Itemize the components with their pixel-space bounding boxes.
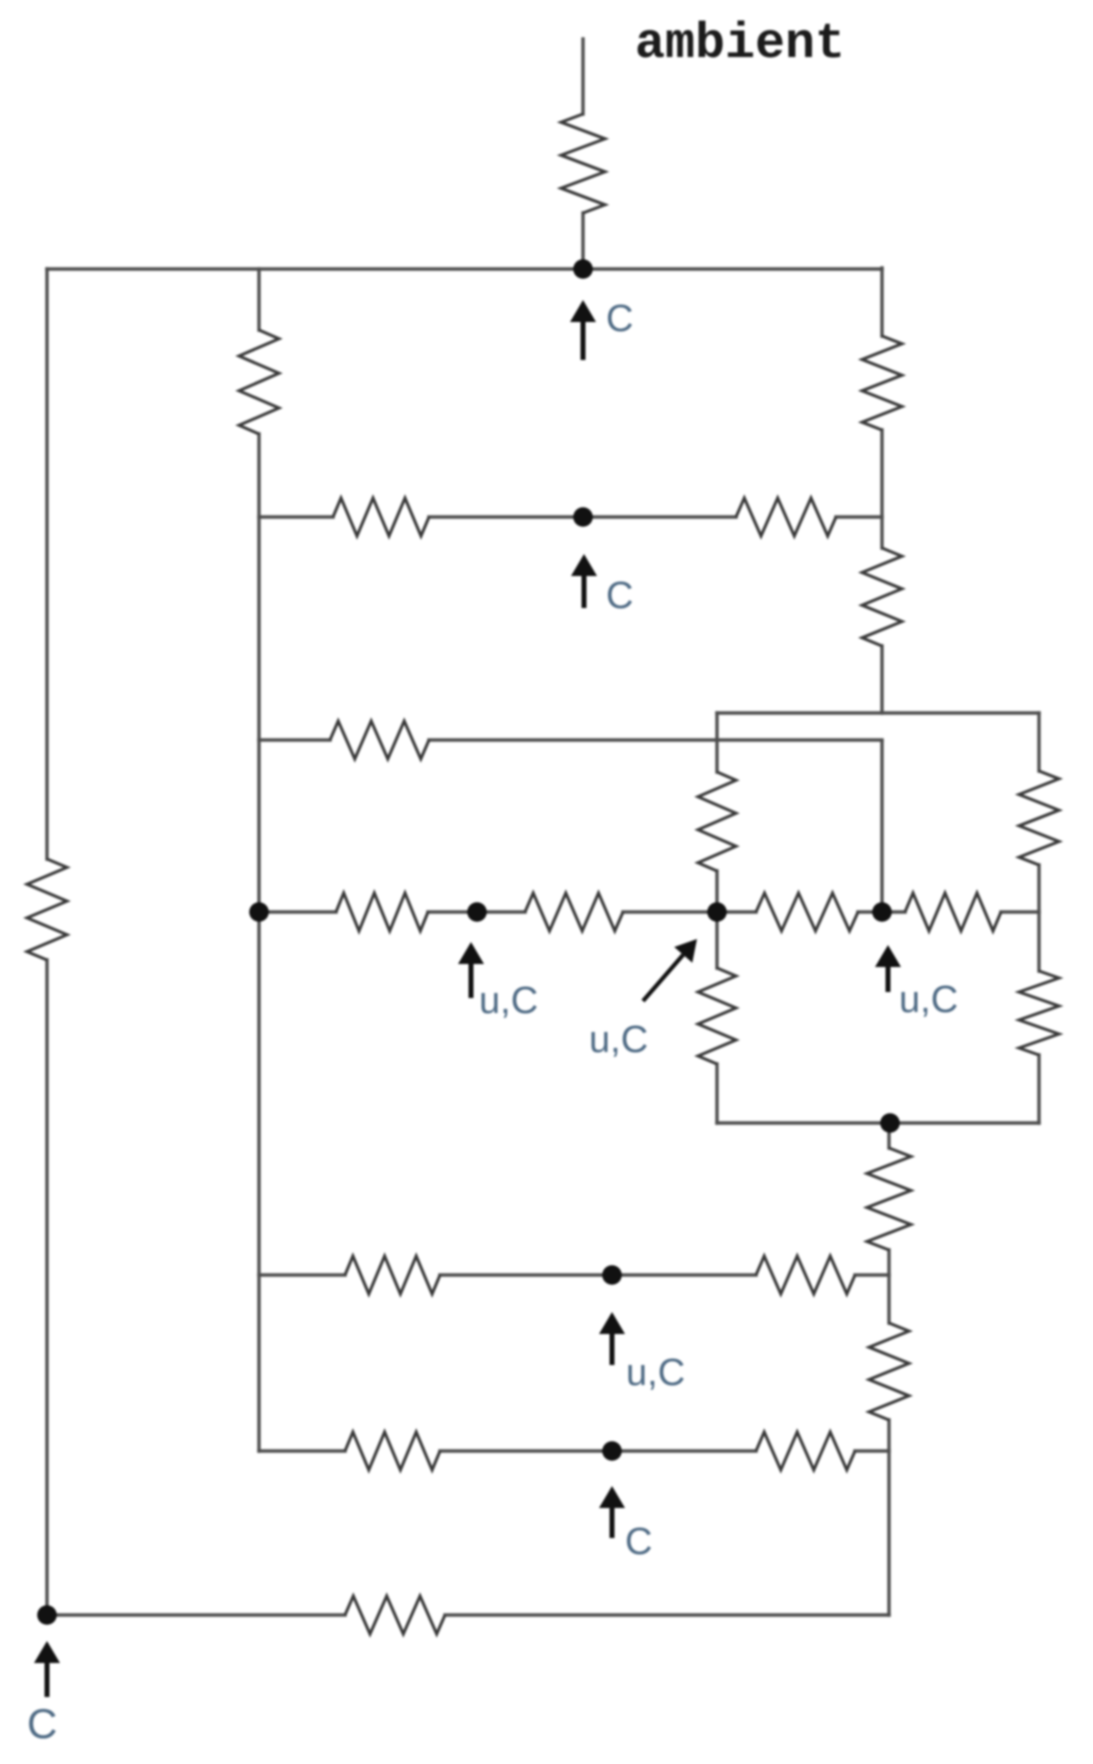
- svg-text:u,C: u,C: [479, 980, 538, 1022]
- svg-text:C: C: [27, 1700, 57, 1747]
- svg-text:ambient: ambient: [635, 16, 845, 73]
- svg-text:u,C: u,C: [899, 979, 958, 1021]
- svg-text:C: C: [606, 298, 633, 340]
- svg-text:C: C: [606, 575, 633, 617]
- svg-text:u,C: u,C: [589, 1019, 648, 1061]
- svg-text:C: C: [625, 1521, 652, 1563]
- svg-text:u,C: u,C: [626, 1352, 685, 1394]
